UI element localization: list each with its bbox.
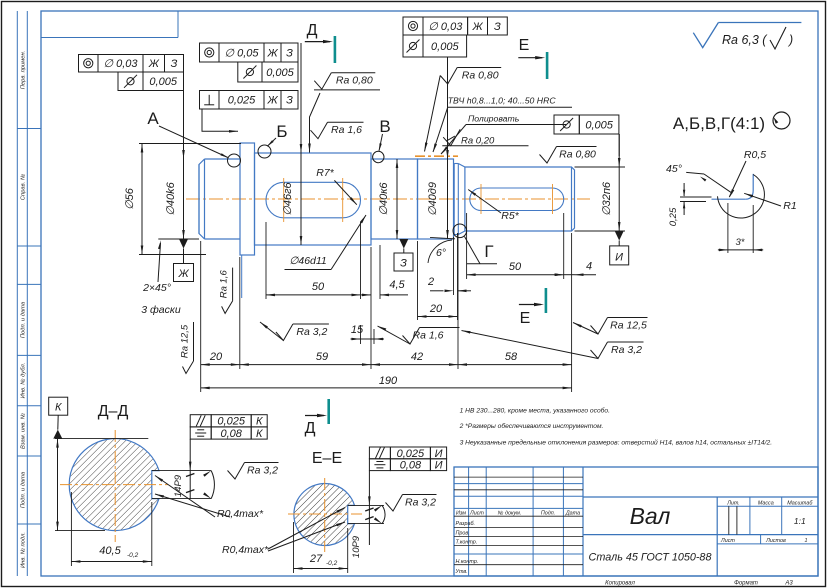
svg-text:Ж: Ж xyxy=(266,95,278,107)
svg-text:Б: Б xyxy=(276,122,287,141)
svg-text:И: И xyxy=(435,448,443,460)
detail 3* dim xyxy=(727,203,729,253)
svg-text:∅32п6: ∅32п6 xyxy=(601,181,613,216)
shaft section O40a9 xyxy=(418,159,454,239)
svg-text:Е: Е xyxy=(519,37,530,54)
svg-text:R0,4max*: R0,4max* xyxy=(217,508,264,520)
dimension 50 keyway O46 xyxy=(265,222,267,299)
svg-text:А,Б,В,Г(4:1): А,Б,В,Г(4:1) xyxy=(673,114,765,133)
svg-text:Ra 12,5: Ra 12,5 xyxy=(610,320,647,332)
dimension 59 xyxy=(240,364,371,366)
svg-text:Г: Г xyxy=(484,242,493,261)
svg-text:И: И xyxy=(435,460,443,472)
svg-text:Ж: Ж xyxy=(472,21,484,33)
D-D vertical dimension xyxy=(57,439,59,531)
D-D parallelism frame xyxy=(190,415,211,427)
svg-text:Перв. примен.: Перв. примен. xyxy=(21,51,27,90)
title right section xyxy=(717,505,818,507)
svg-text:R0,4max*: R0,4max* xyxy=(222,544,269,556)
svg-text:К: К xyxy=(55,402,62,414)
svg-text:15: 15 xyxy=(351,324,364,336)
shaft journal 1 O40k6 outline xyxy=(199,159,205,239)
detail groove contour blue xyxy=(712,198,746,200)
svg-text:20: 20 xyxy=(209,351,223,363)
svg-text:R7*: R7* xyxy=(316,167,334,179)
D-D dim 40,5 xyxy=(70,492,72,566)
svg-text:∅40д9: ∅40д9 xyxy=(427,182,439,216)
svg-text:Вал: Вал xyxy=(630,503,671,529)
svg-text:4: 4 xyxy=(586,261,592,273)
title block row lines xyxy=(454,515,583,517)
dimension 20 right O40a9 xyxy=(417,241,419,320)
svg-text:Лист: Лист xyxy=(469,510,484,516)
svg-text:42: 42 xyxy=(411,351,423,363)
svg-text:27: 27 xyxy=(309,553,323,565)
svg-text:Н.контр.: Н.контр. xyxy=(456,559,479,565)
D-D bottom tangent line xyxy=(55,530,105,532)
svg-text:14Р9: 14Р9 xyxy=(173,474,184,497)
section mark D bottom xyxy=(305,415,324,417)
section E-E centerlines xyxy=(288,513,362,515)
dimension 4,5 groove V xyxy=(379,245,381,299)
Ra 0,80 right of V stack xyxy=(440,68,501,85)
svg-text:10Р9: 10Р9 xyxy=(351,535,362,558)
D-D keyway width dim 14P9 xyxy=(189,439,191,499)
svg-text:Листов: Листов xyxy=(765,538,786,544)
leader from perpendicularity frame xyxy=(202,109,238,131)
svg-text:0,005: 0,005 xyxy=(149,76,177,88)
Ra 0,20 callout xyxy=(443,129,460,146)
svg-text:Лит.: Лит. xyxy=(726,500,740,506)
svg-text:И: И xyxy=(615,252,623,264)
Ra 1,6 journal1 rotated xyxy=(232,268,234,301)
svg-text:-0,2: -0,2 xyxy=(127,552,139,559)
extension line blue below collar xyxy=(241,255,243,298)
svg-text:Разраб.: Разраб. xyxy=(456,521,476,527)
svg-text:59: 59 xyxy=(316,351,328,363)
svg-text:Копировал: Копировал xyxy=(605,581,635,587)
svg-text:0,005: 0,005 xyxy=(431,41,459,53)
svg-text:Т.контр.: Т.контр. xyxy=(456,540,478,546)
svg-text:∅40к6: ∅40к6 xyxy=(378,182,390,216)
dimension O40k6 right + datum З xyxy=(396,159,398,239)
svg-text:Ra 0,80: Ra 0,80 xyxy=(336,75,373,87)
section E-E circle hatched xyxy=(294,483,355,545)
svg-text:0,025: 0,025 xyxy=(217,416,245,428)
datum K box xyxy=(49,397,68,415)
svg-text:Ж: Ж xyxy=(148,58,160,70)
dimension 42 xyxy=(371,364,458,366)
Ra 12,5 right with leader xyxy=(591,318,648,335)
dimension O40a9 xyxy=(447,57,449,239)
svg-text:50: 50 xyxy=(312,281,325,293)
svg-text:Взам. инв. №: Взам. инв. № xyxy=(21,413,27,449)
svg-text:З: З xyxy=(286,47,293,59)
section mark E bottom xyxy=(519,304,541,306)
svg-text:Ra 1,6: Ra 1,6 xyxy=(331,124,362,136)
Ra 3,2 under keyway 50 xyxy=(276,324,329,341)
groove ring G xyxy=(453,224,467,238)
svg-text:Лист: Лист xyxy=(720,538,735,544)
svg-text:Масштаб: Масштаб xyxy=(787,500,813,506)
shaft collar O56 xyxy=(240,143,255,255)
left margin strip xyxy=(16,11,18,576)
svg-text:45°: 45° xyxy=(666,163,682,175)
svg-text:Д: Д xyxy=(305,420,316,437)
svg-text:Масса: Масса xyxy=(758,500,774,506)
E-E dim arc arrows xyxy=(382,505,385,523)
svg-text:З: З xyxy=(171,58,178,70)
svg-text:R0,5: R0,5 xyxy=(744,149,766,161)
dimension 58 xyxy=(458,364,572,366)
groove ring V xyxy=(373,151,384,162)
svg-text:Ra 0,20: Ra 0,20 xyxy=(461,136,495,147)
svg-text:0,08: 0,08 xyxy=(220,428,242,440)
title block outer xyxy=(454,467,818,576)
detail 0,25 dim xyxy=(683,183,685,196)
svg-text:40,5: 40,5 xyxy=(99,545,121,557)
keyway slot O46 center marks xyxy=(283,178,285,222)
svg-text:Инв. № дубл.: Инв. № дубл. xyxy=(21,363,27,399)
svg-text:А3: А3 xyxy=(784,581,793,587)
svg-text:З: З xyxy=(286,95,293,107)
svg-text:190: 190 xyxy=(379,375,398,387)
top-left spare box xyxy=(177,11,179,38)
E-E keyway width dim 10P9 xyxy=(368,471,370,545)
svg-text:Пров.: Пров. xyxy=(456,531,470,537)
keyway slot O32 center marks xyxy=(480,184,482,214)
svg-text:0,08: 0,08 xyxy=(400,460,422,472)
svg-text:50: 50 xyxy=(509,261,522,273)
svg-text:3*: 3* xyxy=(736,237,745,248)
groove ring A xyxy=(228,154,241,167)
svg-text:2: 2 xyxy=(427,276,434,288)
section D-D centerlines xyxy=(60,484,168,486)
D-D symmetry frame xyxy=(190,427,211,439)
svg-text:Д–Д: Д–Д xyxy=(98,403,129,420)
hardening zone line TVCh xyxy=(415,155,458,157)
dimension O40k6 left + datum Ж xyxy=(183,91,185,240)
D-D Ra 3,2 xyxy=(228,463,279,480)
svg-text:1 НВ 230...280, кроме места,: 1 НВ 230...280, кроме места, указанного … xyxy=(460,407,611,415)
Ra 1,6 above B xyxy=(311,122,364,139)
svg-text:Ra 3,2: Ra 3,2 xyxy=(405,497,436,509)
Ra 0,80 above O32 xyxy=(540,147,597,164)
groove ring B xyxy=(258,145,271,158)
svg-text:Утв.: Утв. xyxy=(455,569,468,575)
title block upper small rows xyxy=(454,476,583,478)
section D-D circle hatched xyxy=(69,439,159,531)
svg-text:Сталь 45 ГОСТ 1050-88: Сталь 45 ГОСТ 1050-88 xyxy=(589,552,712,564)
svg-text:Ra 6,3 (: Ra 6,3 ( xyxy=(722,33,768,47)
keyway slot O32 xyxy=(470,188,564,211)
svg-text:Изм: Изм xyxy=(456,510,466,516)
relief groove before O32 xyxy=(453,164,455,235)
detail groove circle R1 xyxy=(718,175,765,219)
dimension 190 xyxy=(201,387,572,389)
Ra 3,2 right with leader xyxy=(591,342,644,359)
E-E dim 27 xyxy=(293,522,295,573)
svg-text:Полировать: Полировать xyxy=(468,113,520,123)
svg-text:Формат: Формат xyxy=(734,581,758,587)
Ra 1,6 under 42 xyxy=(403,328,460,345)
dimension O46g6 xyxy=(300,43,302,245)
svg-text:Ra 12,5: Ra 12,5 xyxy=(179,324,190,358)
tolerance frame stack right (O40a9) xyxy=(403,17,423,35)
svg-text:Д: Д xyxy=(307,22,318,39)
D-D keyway ext lines xyxy=(152,470,211,472)
svg-text:З: З xyxy=(400,258,407,270)
svg-text:Подп. и дата: Подп. и дата xyxy=(21,471,27,508)
svg-text:∅56: ∅56 xyxy=(124,187,136,210)
svg-text:∅40k6: ∅40k6 xyxy=(165,181,177,215)
svg-text:58: 58 xyxy=(505,351,518,363)
svg-text:Ra 1,6: Ra 1,6 xyxy=(413,330,444,342)
svg-text:0,005: 0,005 xyxy=(266,67,294,79)
keyway slot O46 xyxy=(266,182,361,218)
svg-text:Ж: Ж xyxy=(266,47,278,59)
svg-text:0,25: 0,25 xyxy=(668,207,679,226)
tolerance frame stack center (O46) xyxy=(200,43,220,62)
svg-text:3 Неуказанные предельные откл: 3 Неуказанные предельные отклонения разм… xyxy=(460,439,773,447)
svg-text:Дата: Дата xyxy=(565,510,580,516)
svg-text:2×45°: 2×45° xyxy=(142,282,171,294)
D-D top tangent line xyxy=(55,438,148,440)
svg-text:А: А xyxy=(147,109,159,128)
shaft journal 2 O40k6 xyxy=(371,159,418,239)
svg-text:№ докум.: № докум. xyxy=(498,510,522,516)
shaft section O32p6 outline xyxy=(465,167,575,231)
svg-text:20: 20 xyxy=(429,303,443,315)
svg-text:0,005: 0,005 xyxy=(585,119,613,131)
svg-text:ТВЧ h0,8...1,0; 40...50 HRC: ТВЧ h0,8...1,0; 40...50 HRC xyxy=(448,96,557,106)
svg-text:∅ 0,03: ∅ 0,03 xyxy=(428,21,463,33)
svg-text:R1: R1 xyxy=(783,200,796,212)
svg-text:∅46d11: ∅46d11 xyxy=(289,255,327,267)
svg-text:6°: 6° xyxy=(436,247,446,259)
svg-text:Ra 3,2: Ra 3,2 xyxy=(247,465,278,477)
svg-text:Инв. № подл.: Инв. № подл. xyxy=(21,532,27,568)
E-E parallelism frame xyxy=(369,447,390,459)
dimension 20 left xyxy=(201,364,240,366)
tolerance frame O32 cylindricity xyxy=(554,115,579,134)
svg-text:0,025: 0,025 xyxy=(397,448,425,460)
svg-text:Подп. и дата: Подп. и дата xyxy=(21,301,27,338)
E-E keyway ext lines xyxy=(348,504,384,506)
title block verticals left part xyxy=(468,467,470,576)
svg-text:Справ. №: Справ. № xyxy=(21,174,27,200)
svg-text:Ra 1,6: Ra 1,6 xyxy=(218,270,229,299)
dimension O56 xyxy=(139,143,241,145)
svg-text:1: 1 xyxy=(805,538,808,544)
svg-text:Ra 0,80: Ra 0,80 xyxy=(559,149,596,161)
dimension 2 relief groove xyxy=(453,237,455,295)
shaft section O46 outline xyxy=(255,153,372,245)
shaft centerline xyxy=(186,198,590,200)
tolerance frame stack left (O40k6) xyxy=(79,55,99,73)
title center dividers xyxy=(583,496,818,498)
svg-text:1:1: 1:1 xyxy=(794,516,806,526)
svg-text:-0,2: -0,2 xyxy=(326,560,338,567)
svg-text:Ra 3,2: Ra 3,2 xyxy=(296,326,327,338)
svg-text:4,5: 4,5 xyxy=(389,279,405,291)
svg-text:Ra 0,80: Ra 0,80 xyxy=(462,70,499,82)
svg-text:∅ 0,05: ∅ 0,05 xyxy=(224,47,259,59)
general roughness Ra 6,3 xyxy=(693,23,718,48)
Ra 12,5 left face rotated xyxy=(193,322,195,361)
dimension 15 xyxy=(360,325,362,344)
dimension O32p6 + datum И xyxy=(575,166,626,168)
dimension 4 keyway end xyxy=(564,274,575,276)
svg-text:R5*: R5* xyxy=(501,210,519,222)
E-E Ra 3,2 xyxy=(386,495,437,512)
D-D dim arc arrows xyxy=(211,471,214,499)
svg-text:∅46г6: ∅46г6 xyxy=(282,181,294,215)
svg-text:К: К xyxy=(256,416,263,428)
svg-text:0,025: 0,025 xyxy=(228,95,256,107)
svg-text:Подп.: Подп. xyxy=(541,510,555,516)
svg-text:2 *Размеры обеспечиваются инс: 2 *Размеры обеспечиваются инструментом. xyxy=(459,422,604,430)
svg-text:∅ 0,03: ∅ 0,03 xyxy=(103,58,138,70)
Ra 0,80 top left xyxy=(314,73,375,90)
svg-text:З: З xyxy=(494,21,501,33)
svg-text:Ra 3,2: Ra 3,2 xyxy=(611,344,642,356)
svg-text:Е: Е xyxy=(520,310,531,327)
svg-text:Е–Е: Е–Е xyxy=(312,450,342,467)
E-E symmetry frame xyxy=(369,459,390,471)
svg-text:3 фаски: 3 фаски xyxy=(141,304,181,316)
svg-text:К: К xyxy=(256,428,263,440)
svg-text:Ж: Ж xyxy=(177,268,189,280)
extension lines bottom chain xyxy=(200,241,202,392)
dimension 50 keyway O32 xyxy=(466,213,468,279)
svg-text:В: В xyxy=(379,117,390,136)
